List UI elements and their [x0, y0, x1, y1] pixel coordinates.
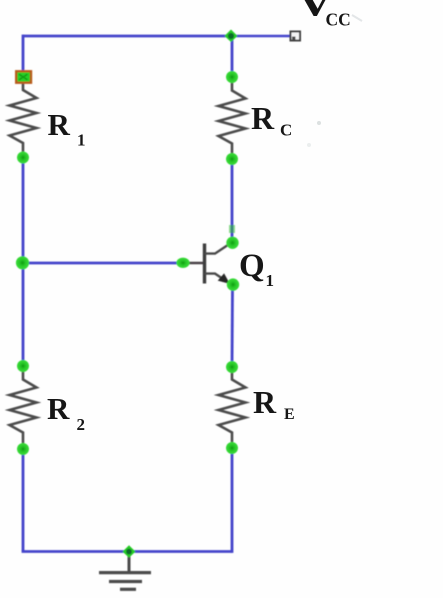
- svg-text:C: C: [280, 121, 292, 140]
- wire: base node to transistor base: [23, 262, 183, 265]
- node: emitter pin dot: [227, 278, 239, 290]
- resistor R1: [10, 83, 37, 154]
- base lead (dark): [183, 262, 205, 265]
- wire: base-node junction down to R2 top: [22, 263, 25, 366]
- node: RC top pin dot: [226, 71, 238, 83]
- svg-text:1: 1: [266, 271, 275, 290]
- resistor RC: [219, 83, 246, 154]
- node: RE top pin dot: [226, 361, 238, 373]
- emitter branch: [205, 274, 230, 284]
- emitter arrowhead: [219, 274, 229, 283]
- wire: left vertical from corner to R1 top: [22, 35, 25, 72]
- wire: R2 bottom to bottom rail: [22, 449, 25, 552]
- wire: Vcc junction to terminal stub: [231, 35, 290, 38]
- wire: right vertical RE bottom up to bottom rail: [231, 448, 234, 553]
- node: RE bottom pin dot: [226, 442, 238, 454]
- terminal: R1 top selected pin (orange square, green center): [16, 71, 31, 82]
- node: base junction dot: [16, 256, 29, 269]
- node: R2 top pin dot: [17, 360, 29, 372]
- base bar: [203, 244, 206, 284]
- node: ground junction dot: [123, 545, 136, 558]
- wire: top rail from top-left corner to Vcc junction: [23, 35, 231, 38]
- svg-text:1: 1: [77, 131, 86, 150]
- node: base pin dot: [176, 258, 189, 268]
- svg-text:Q: Q: [239, 248, 265, 284]
- svg-text:R: R: [253, 384, 277, 420]
- wire: bottom rail: [22, 550, 232, 553]
- node: R2 bottom pin dot: [17, 443, 29, 455]
- svg-text:E: E: [284, 406, 295, 423]
- svg-text:R: R: [47, 391, 70, 426]
- wire: emitter down to RE top: [231, 285, 234, 367]
- node: R1 bottom pin dot: [17, 152, 29, 164]
- resistor R2: [10, 372, 37, 443]
- resistor RE: [219, 372, 246, 443]
- svg-text:CC: CC: [326, 10, 351, 30]
- node: wire end marker above collector: [229, 225, 235, 233]
- node: Vcc rail junction: [225, 30, 238, 43]
- ground: [99, 552, 151, 589]
- svg-text:R: R: [48, 107, 71, 142]
- svg-text:R: R: [251, 100, 275, 136]
- collector branch: [205, 243, 231, 253]
- node: collector pin dot: [226, 237, 238, 249]
- wire: RC bottom down to collector: [231, 159, 234, 242]
- terminal Vcc stub square: [291, 32, 301, 41]
- node: RC bottom pin dot: [226, 153, 238, 165]
- transistor Q1: [183, 243, 231, 283]
- faint artifacts: [317, 121, 321, 125]
- svg-text:2: 2: [77, 415, 86, 434]
- wire: Vcc junction down to RC top: [231, 36, 234, 77]
- wire: R1 bottom to base-node junction: [22, 158, 25, 263]
